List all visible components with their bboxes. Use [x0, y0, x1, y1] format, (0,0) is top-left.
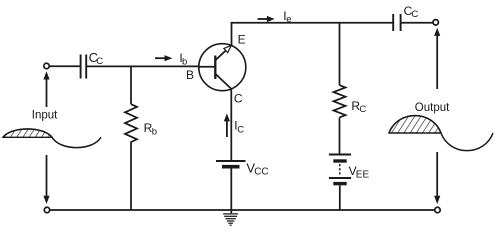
battery V_CC	[216, 161, 246, 167]
svg-text:C: C	[234, 92, 243, 106]
svg-text:e: e	[286, 14, 291, 25]
arrow: input bottom pointing down	[43, 155, 49, 204]
arrow I_C	[224, 114, 230, 138]
wire: R_b to bottom rail	[130, 142, 132, 211]
label V_CC	[246, 160, 268, 177]
wire: R_b branch from base wire	[130, 66, 132, 104]
ground	[223, 210, 238, 225]
svg-text:C: C	[411, 9, 418, 20]
resistor R_C	[334, 85, 346, 117]
arrow I_b	[155, 55, 172, 61]
label I_b	[179, 51, 187, 67]
wire: V_CC to bottom rail	[230, 169, 232, 211]
wire: R_C to battery V_EE	[339, 117, 341, 154]
wire: capacitor to transistor base	[86, 65, 199, 67]
label C_C input	[89, 50, 104, 67]
transistor collector lead	[215, 74, 231, 89]
svg-text:EE: EE	[356, 169, 370, 180]
label I_C	[234, 119, 244, 136]
input sine wave with hatched positive half	[3, 129, 101, 148]
transistor base lead	[199, 66, 216, 68]
wire: collector down to battery V_CC	[230, 89, 232, 161]
svg-text:CC: CC	[254, 167, 268, 178]
wire: top rail right segment	[401, 22, 433, 24]
arrow: output bottom pointing down	[434, 152, 440, 204]
label R_b	[144, 121, 157, 138]
wire: input top terminal to capacitor	[49, 65, 80, 67]
terminal: output bottom	[435, 207, 440, 212]
svg-text:B: B	[186, 68, 194, 82]
transistor Q1 body	[199, 44, 246, 91]
output sine wave with hatched positive half	[389, 116, 493, 151]
svg-text:b: b	[182, 57, 187, 68]
label I_e	[283, 9, 291, 25]
svg-text:C: C	[96, 56, 103, 67]
terminal: input bottom	[44, 207, 49, 212]
svg-text:C: C	[359, 104, 366, 115]
transistor base bar	[214, 56, 216, 80]
wire: emitter to top rail	[231, 22, 233, 45]
battery V_EE	[329, 155, 351, 184]
capacitor C_C input: plates	[81, 55, 87, 79]
svg-text:C: C	[237, 124, 244, 135]
wire: R_C branch from top rail	[339, 23, 341, 85]
resistor R_b	[125, 104, 137, 142]
svg-text:E: E	[238, 32, 246, 46]
label R_C	[351, 99, 366, 115]
svg-text:Input: Input	[32, 110, 58, 122]
svg-text:b: b	[152, 126, 157, 137]
wire: top rail left segment	[231, 22, 394, 24]
label V_EE	[349, 164, 370, 180]
wire: bottom rail	[50, 209, 435, 211]
capacitor C_C output: plates	[393, 14, 400, 31]
svg-text:Output: Output	[415, 102, 450, 114]
label C_C output	[404, 4, 419, 20]
terminal: input top	[44, 63, 49, 68]
transistor emitter lead with arrow	[215, 45, 231, 60]
arrow: input top pointing up	[43, 71, 49, 107]
terminal: output top	[433, 20, 438, 25]
arrow: output top pointing up	[434, 28, 440, 89]
arrow I_e	[258, 16, 275, 22]
wire: V_EE to bottom rail	[339, 185, 341, 210]
